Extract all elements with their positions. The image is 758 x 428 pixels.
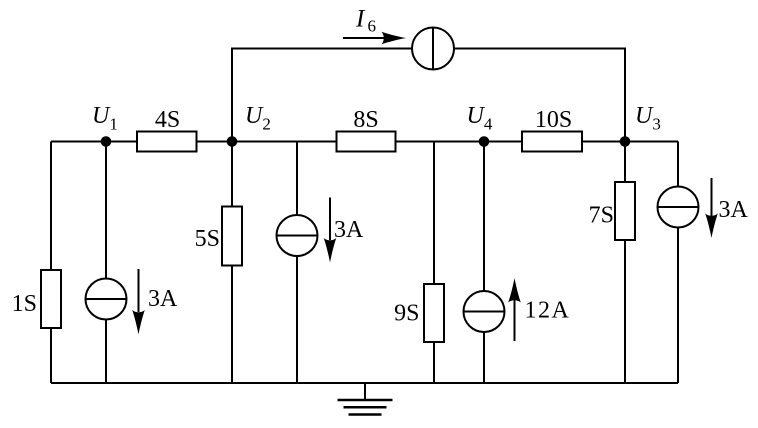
current source I6 (top) xyxy=(412,28,454,70)
svg-text:1S: 1S xyxy=(12,291,37,317)
svg-text:9S: 9S xyxy=(394,301,419,327)
current source 3A (right rail) xyxy=(658,187,699,228)
arrow 3A right xyxy=(705,178,718,238)
wire: U2 up to top rail and across to I6 source xyxy=(232,49,413,142)
current source 12A (on U4 branch) xyxy=(464,291,505,332)
current source 3A (middle, near U2) xyxy=(277,215,318,256)
resistor 10S xyxy=(522,132,582,152)
svg-text:7S: 7S xyxy=(589,203,614,229)
resistor 5S xyxy=(222,207,242,266)
svg-text:U3: U3 xyxy=(635,103,661,134)
resistor 8S xyxy=(337,132,396,152)
wire: 9S branch down xyxy=(433,142,435,384)
resistor 4S xyxy=(137,132,197,152)
resistor 1S xyxy=(41,270,61,328)
arrow 12A (up) xyxy=(508,278,521,341)
main bus wire xyxy=(51,141,678,143)
svg-text:I6: I6 xyxy=(355,6,376,36)
wire: 3A mid branch down xyxy=(296,142,298,384)
svg-text:3A: 3A xyxy=(334,217,364,243)
arrow 3A left xyxy=(132,269,145,335)
svg-text:3A: 3A xyxy=(148,286,178,312)
node U1 xyxy=(101,136,112,147)
wire: U2 branch down xyxy=(231,142,233,384)
node U4 xyxy=(479,136,490,147)
wire: I6 source to top-right corner down to U3 xyxy=(454,49,626,142)
arrow I6 xyxy=(343,32,406,45)
node U3 xyxy=(620,136,631,147)
svg-text:12A: 12A xyxy=(525,298,571,324)
wire: U3 branch down xyxy=(624,142,626,384)
svg-text:U1: U1 xyxy=(92,103,118,134)
wire: right rail down xyxy=(677,142,679,384)
bottom bus wire xyxy=(51,382,678,384)
wire: U1 branch down xyxy=(105,142,107,384)
left rail wire xyxy=(50,142,52,384)
resistor 7S xyxy=(615,182,635,240)
svg-text:3A: 3A xyxy=(719,197,749,223)
svg-text:10S: 10S xyxy=(535,107,572,133)
svg-text:8S: 8S xyxy=(353,107,378,133)
svg-text:U2: U2 xyxy=(245,103,271,134)
ground xyxy=(338,383,393,415)
node U2 xyxy=(227,136,238,147)
wire: U4 branch down xyxy=(483,142,485,384)
current source 3A (left, on U1 branch) xyxy=(86,279,127,320)
arrow 3A middle xyxy=(324,198,337,263)
svg-text:4S: 4S xyxy=(155,107,180,133)
svg-text:5S: 5S xyxy=(195,226,220,252)
svg-text:U4: U4 xyxy=(467,103,493,134)
resistor 9S xyxy=(424,284,444,342)
